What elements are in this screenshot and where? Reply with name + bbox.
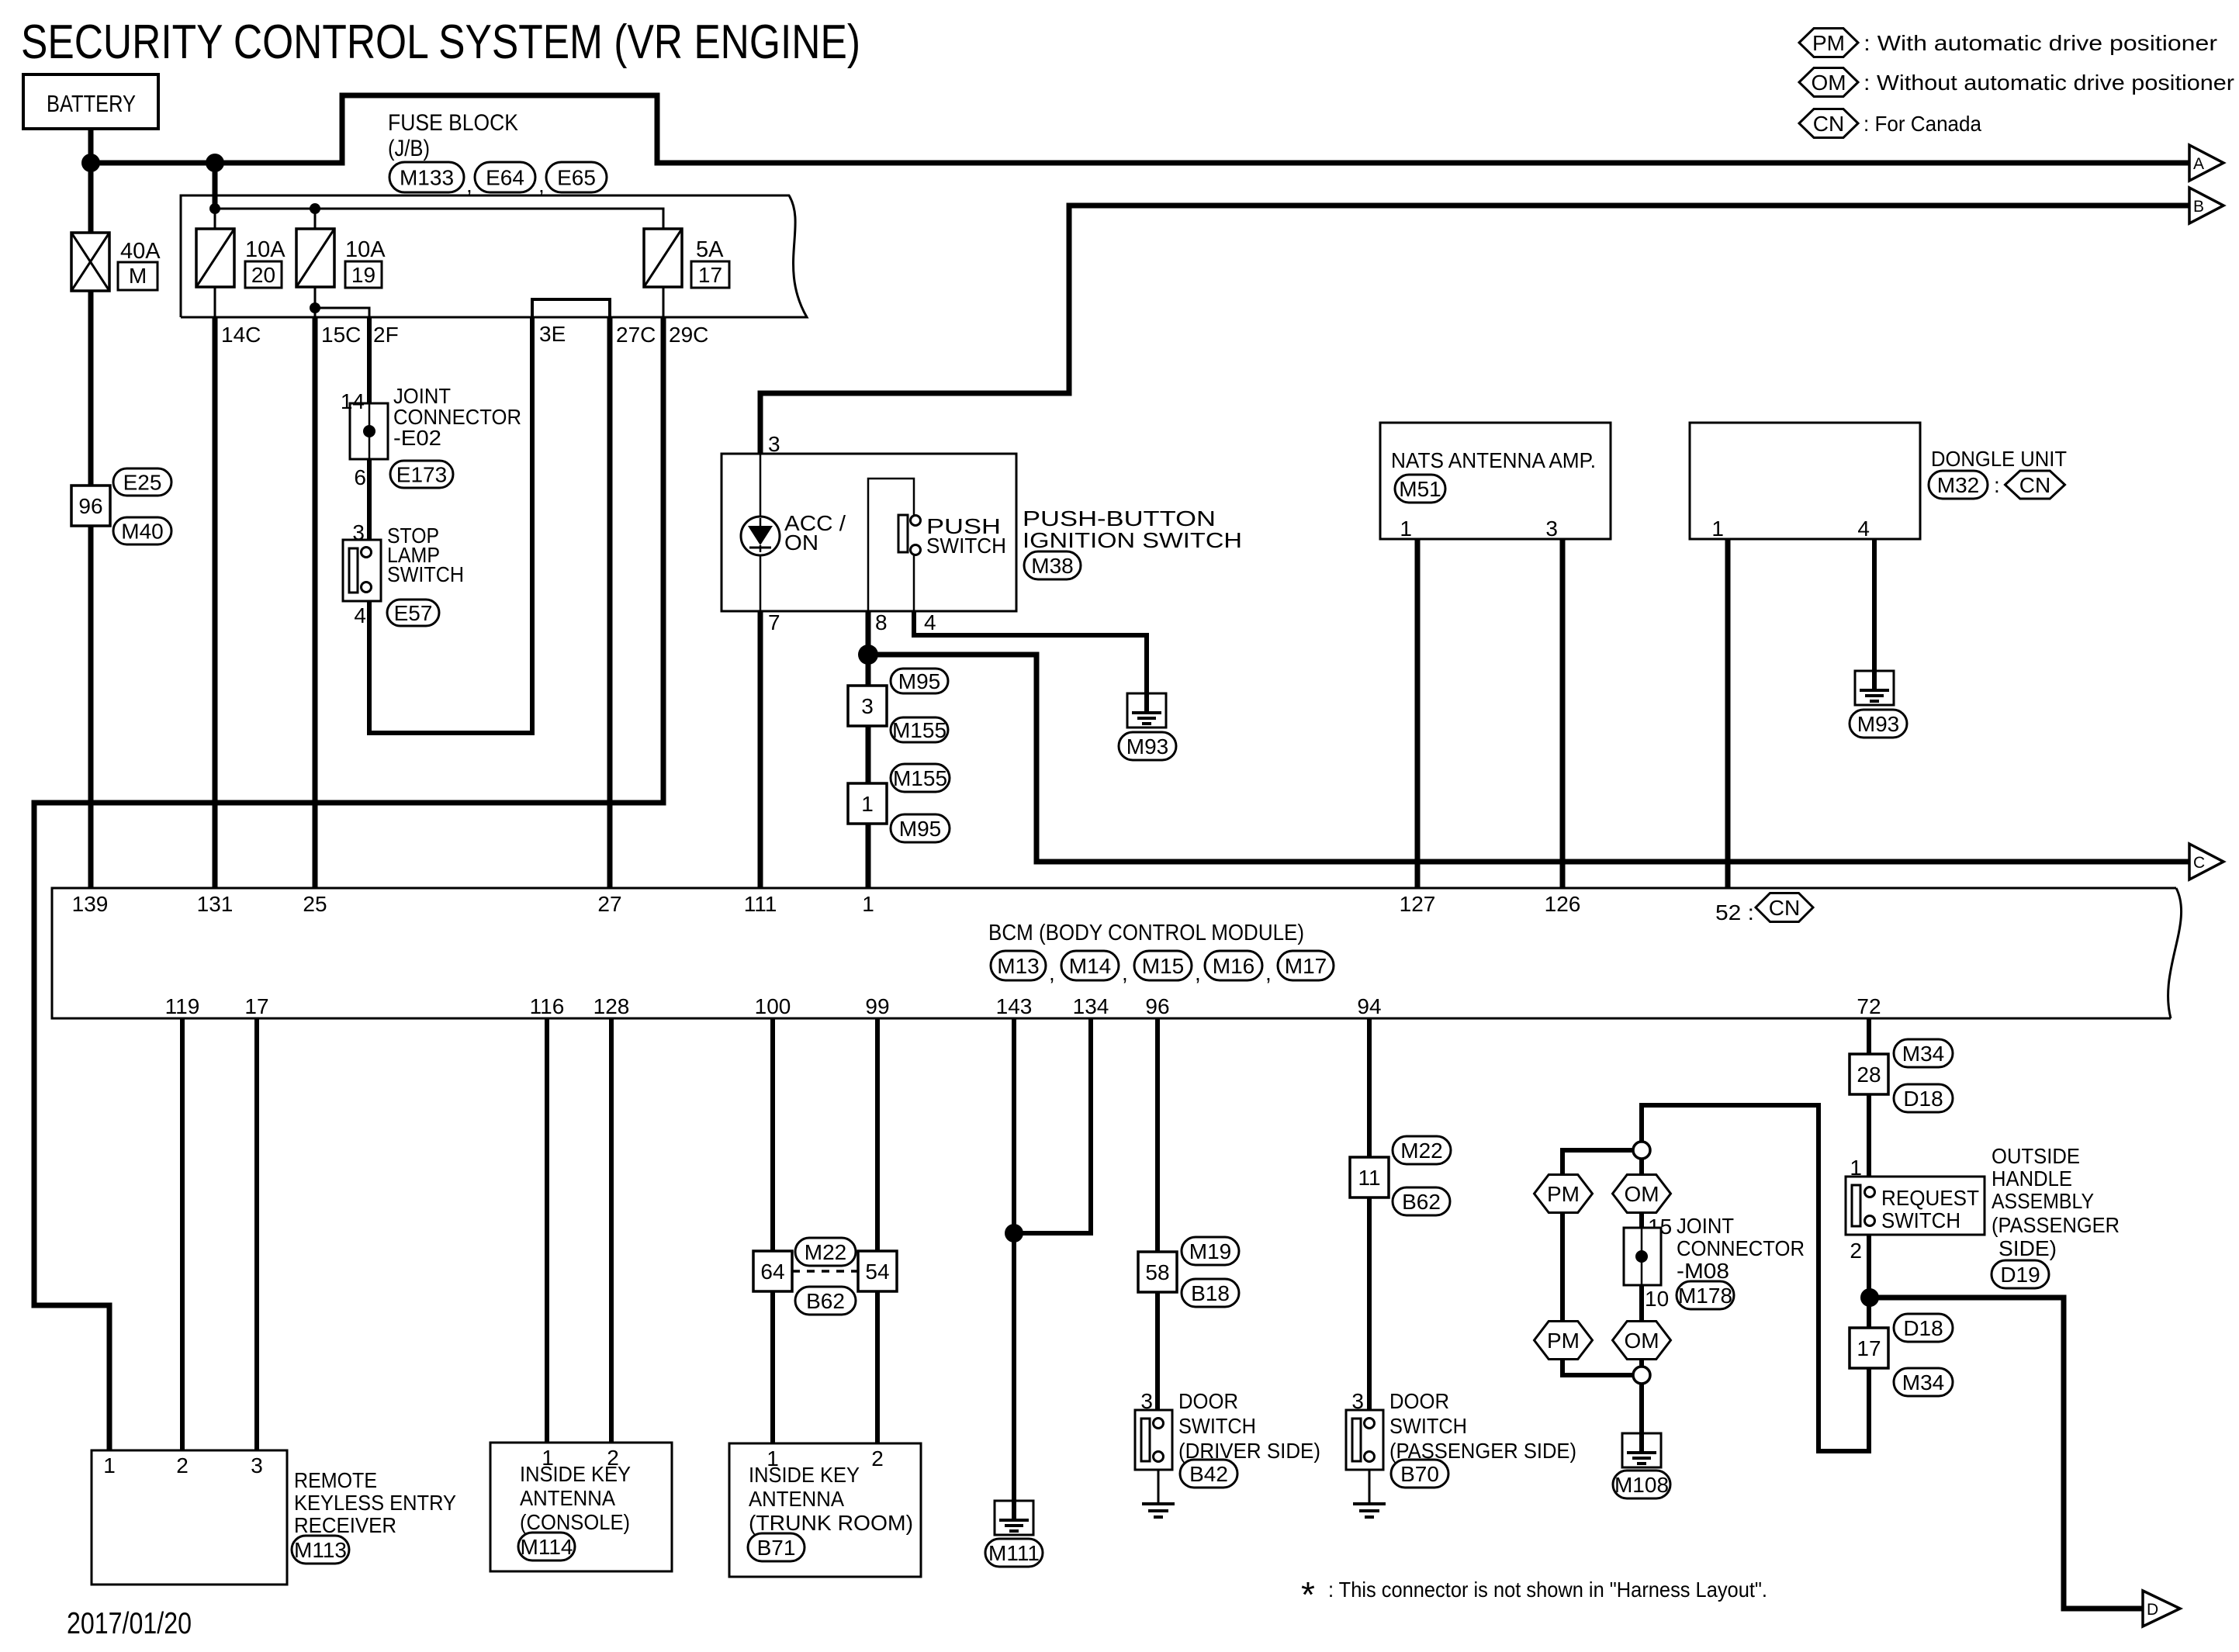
svg-text:M14: M14	[1069, 954, 1111, 978]
wire NATS antenna amp pin 1 to BCM pin 127	[1415, 539, 1421, 888]
wire bus A from battery junction over fuse block to arrow A	[91, 95, 2189, 163]
svg-text:2: 2	[871, 1446, 884, 1471]
wire push-button ignition switch pin 8 to BCM pin 1	[866, 611, 871, 888]
connector M34 upper	[1894, 1039, 1953, 1067]
wire 2F branch from fuse 19 junction	[315, 308, 369, 317]
connector M155 lower	[891, 764, 950, 792]
wire lower OM connector to option junction B	[1639, 1359, 1644, 1367]
svg-text:64: 64	[760, 1260, 784, 1284]
svg-text:(J/B): (J/B)	[388, 136, 430, 161]
svg-text:3: 3	[768, 432, 780, 456]
svg-text:M13: M13	[997, 954, 1039, 978]
svg-text:40A: 40A	[120, 239, 161, 264]
svg-text:REQUEST: REQUEST	[1881, 1186, 1979, 1210]
svg-text:SWITCH: SWITCH	[926, 534, 1006, 558]
wire 27C to BCM pin 27	[607, 317, 613, 888]
in-line connector pin 1	[848, 783, 887, 824]
svg-text:(CONSOLE): (CONSOLE)	[520, 1510, 630, 1534]
svg-text:4: 4	[924, 610, 936, 634]
battery	[23, 74, 158, 129]
NATS antenna amp box	[1380, 423, 1611, 539]
svg-text:1: 1	[103, 1453, 116, 1477]
legend symbol PM	[1799, 29, 1858, 57]
svg-text:25: 25	[303, 892, 327, 916]
svg-text:PM: PM	[1812, 31, 1845, 55]
svg-text:PM: PM	[1547, 1182, 1580, 1206]
connector B62 passenger	[1393, 1187, 1450, 1215]
terminal stub 3E	[532, 299, 610, 317]
svg-text:M114: M114	[521, 1535, 573, 1559]
svg-text:: This connector is not shown: : This connector is not shown in "Harnes…	[1328, 1578, 1767, 1602]
off-page arrow C	[2189, 844, 2223, 880]
in-line connector pin 28	[1850, 1054, 1888, 1094]
svg-text:29C: 29C	[669, 323, 708, 347]
svg-text:(TRUNK ROOM): (TRUNK ROOM)	[749, 1511, 913, 1535]
connector M155 upper	[891, 717, 948, 742]
junction fuse block bus at 14C	[209, 203, 220, 214]
svg-text:M95: M95	[898, 669, 940, 693]
svg-text:SIDE): SIDE)	[1998, 1236, 2057, 1260]
in-line connector pin 64	[753, 1251, 792, 1291]
svg-text:131: 131	[197, 892, 234, 916]
svg-text:M178: M178	[1678, 1284, 1732, 1308]
svg-text:1: 1	[1400, 517, 1412, 541]
svg-text:B42: B42	[1189, 1462, 1228, 1486]
svg-text:M155: M155	[893, 766, 947, 790]
svg-text:28: 28	[1857, 1063, 1881, 1087]
ground driver door switch	[1142, 1502, 1175, 1505]
svg-text:C: C	[2193, 854, 2205, 872]
wire fuse 19 lower branch with junction	[314, 287, 317, 317]
remote keyless entry receiver box	[92, 1450, 287, 1585]
ground M111	[995, 1501, 1033, 1535]
svg-text:OM: OM	[1624, 1329, 1659, 1353]
svg-text:B: B	[2193, 198, 2204, 216]
svg-text:,: ,	[1122, 961, 1128, 985]
svg-text:E173: E173	[396, 463, 447, 487]
svg-text:7: 7	[768, 610, 780, 634]
svg-text:: For Canada: : For Canada	[1864, 112, 1981, 136]
wire BCM pin 100 to inside key antenna trunk pin 1	[770, 1018, 775, 1443]
wire NATS antenna amp pin 3 to BCM pin 126	[1560, 539, 1566, 888]
dongle unit box	[1690, 423, 1920, 539]
wire fuse block internal bus	[215, 209, 663, 229]
svg-text:SWITCH: SWITCH	[1881, 1208, 1960, 1232]
connector M133	[389, 162, 464, 192]
wire door switch driver side to ground	[1158, 1470, 1160, 1504]
junction request switch pin 2	[1860, 1288, 1879, 1307]
svg-text:M32: M32	[1937, 473, 1979, 497]
connector E173	[390, 461, 453, 488]
svg-text:M113: M113	[294, 1538, 347, 1562]
svg-text:15C: 15C	[321, 323, 361, 347]
connector M40	[113, 517, 171, 544]
svg-text:96: 96	[78, 494, 102, 518]
svg-text:96: 96	[1145, 994, 1169, 1018]
svg-text:10A: 10A	[245, 237, 285, 262]
svg-text:5A: 5A	[696, 237, 724, 262]
svg-text:128: 128	[593, 994, 630, 1018]
svg-text:3: 3	[251, 1453, 263, 1477]
svg-text:M108: M108	[1614, 1473, 1669, 1497]
wire request switch junction to arrow D	[1869, 1298, 2143, 1609]
svg-text:DONGLE UNIT: DONGLE UNIT	[1931, 447, 2067, 471]
fuse 17 5A	[644, 229, 682, 287]
connector M17	[1278, 951, 1334, 980]
connector B62	[795, 1287, 856, 1315]
svg-text:72: 72	[1857, 994, 1881, 1018]
svg-text:2: 2	[176, 1453, 189, 1477]
svg-text:D: D	[2147, 1601, 2158, 1619]
svg-text:E64: E64	[486, 166, 524, 190]
connector M95 lower	[891, 814, 950, 842]
svg-text:M40: M40	[121, 520, 163, 544]
svg-text:,: ,	[1195, 961, 1201, 985]
svg-text:D19: D19	[2000, 1263, 2040, 1287]
svg-text:M15: M15	[1142, 954, 1184, 978]
connector M34 lower	[1894, 1368, 1953, 1396]
svg-text:INSIDE KEY: INSIDE KEY	[520, 1462, 631, 1486]
svg-text:139: 139	[72, 892, 109, 916]
svg-text:E65: E65	[557, 166, 596, 190]
connector M19	[1182, 1237, 1239, 1265]
svg-text:M93: M93	[1857, 712, 1899, 736]
symbol PM lower	[1535, 1322, 1593, 1360]
svg-text:M133: M133	[400, 166, 454, 190]
svg-text:(PASSENGER: (PASSENGER	[1992, 1213, 2120, 1237]
wire joint connector E02 to stop lamp switch pin 3	[367, 459, 372, 547]
wire BCM pin 143 to ground M111	[1012, 1018, 1016, 1501]
svg-text:,: ,	[1049, 961, 1055, 985]
svg-text::: :	[1994, 473, 2000, 497]
svg-text:M38: M38	[1031, 554, 1073, 578]
ground M108	[1622, 1433, 1661, 1467]
svg-text:4: 4	[354, 603, 366, 627]
indicator ACC/ON internal wire	[760, 454, 762, 611]
wire BCM pin 119 to remote keyless entry receiver pin 2	[180, 1018, 185, 1450]
junction fuse block bus at 15C	[310, 203, 320, 214]
svg-text:2F: 2F	[373, 323, 399, 347]
connector E65	[546, 162, 607, 192]
connector M108	[1613, 1471, 1670, 1498]
wire B line from arrow B to push-button ignition switch pin 3	[760, 206, 2189, 454]
svg-text:4: 4	[1857, 517, 1870, 541]
svg-text:27: 27	[597, 892, 621, 916]
wire option junction B to ground M108	[1639, 1384, 1644, 1433]
option junction A	[1633, 1142, 1650, 1159]
connector M22	[795, 1238, 856, 1266]
wire BCM pin 17 to remote keyless entry receiver pin 3	[254, 1018, 259, 1450]
in-line connector pin 11	[1350, 1157, 1389, 1198]
svg-text:E57: E57	[394, 601, 433, 625]
svg-text:-E02: -E02	[393, 426, 441, 450]
wire pin 8 junction to arrow C	[868, 655, 2189, 862]
svg-text:B62: B62	[1402, 1190, 1441, 1214]
connector B71	[748, 1533, 805, 1561]
svg-text:CONNECTOR: CONNECTOR	[1677, 1236, 1805, 1260]
symbol CN dongle	[2005, 471, 2065, 499]
svg-text:17: 17	[244, 994, 268, 1018]
wire BCM pin 99 to inside key antenna trunk pin 2	[875, 1018, 880, 1443]
in-line connector pin 54	[858, 1251, 897, 1291]
connector M114	[518, 1533, 575, 1560]
svg-text:B62: B62	[806, 1289, 845, 1313]
connector M93	[1119, 732, 1176, 760]
ground M93 dongle	[1855, 671, 1894, 705]
svg-text:99: 99	[865, 994, 889, 1018]
door switch passenger side	[1346, 1410, 1383, 1470]
wire 15C to BCM pin 25	[313, 317, 318, 888]
svg-text:8: 8	[875, 610, 888, 634]
connector D18 upper	[1894, 1084, 1953, 1112]
svg-text:M51: M51	[1399, 477, 1441, 501]
connector M32	[1929, 471, 1988, 499]
svg-text:SWITCH: SWITCH	[1389, 1414, 1467, 1438]
svg-text:OUTSIDE: OUTSIDE	[1992, 1144, 2080, 1168]
svg-text:14: 14	[341, 389, 365, 413]
in-line connector pin 3	[848, 686, 887, 726]
connector M51	[1395, 475, 1445, 503]
svg-text:M34: M34	[1902, 1370, 1944, 1395]
connector B70	[1391, 1460, 1448, 1488]
connector B18	[1182, 1279, 1239, 1307]
in-line connector pin 58	[1138, 1252, 1177, 1292]
connector M13	[991, 951, 1046, 980]
wire lower PM to option junction B	[1562, 1359, 1633, 1375]
svg-text:27C: 27C	[616, 323, 656, 347]
push switch internal wiring	[868, 479, 914, 611]
svg-text:119: 119	[165, 994, 200, 1018]
svg-text:143: 143	[996, 994, 1033, 1018]
svg-text:58: 58	[1145, 1260, 1169, 1284]
door switch driver side	[1135, 1410, 1172, 1470]
connector M113	[292, 1536, 349, 1564]
off-page arrow B	[2189, 188, 2223, 223]
svg-text:CN: CN	[1813, 112, 1844, 136]
svg-text:HANDLE: HANDLE	[1992, 1166, 2072, 1191]
svg-text:M95: M95	[899, 817, 941, 841]
svg-text:3: 3	[861, 694, 874, 718]
svg-text:D18: D18	[1903, 1087, 1943, 1111]
svg-text:B18: B18	[1191, 1281, 1230, 1305]
legend symbol CN	[1799, 109, 1858, 138]
connector 96 in-line	[71, 486, 110, 526]
svg-text:B71: B71	[757, 1536, 796, 1560]
wire between PM connectors	[1560, 1212, 1565, 1322]
svg-text:DOOR: DOOR	[1178, 1389, 1238, 1413]
connector E64	[475, 162, 535, 192]
svg-text:,: ,	[1265, 961, 1272, 985]
svg-text:111: 111	[744, 892, 777, 916]
svg-text:RECEIVER: RECEIVER	[294, 1513, 396, 1537]
connector M95 upper	[891, 669, 948, 693]
svg-text:: With automatic drive positio: : With automatic drive positioner	[1864, 31, 2217, 55]
svg-text:E25: E25	[123, 471, 162, 495]
svg-text:M: M	[129, 264, 147, 288]
ground passenger door switch	[1353, 1502, 1386, 1505]
svg-text:D18: D18	[1903, 1316, 1943, 1340]
wire option branch left PM path	[1562, 1150, 1633, 1175]
svg-text:M111: M111	[988, 1541, 1040, 1565]
svg-text:M93: M93	[1126, 734, 1168, 759]
fusible link 40A M	[71, 233, 109, 291]
BCM body control module box	[52, 888, 2182, 1018]
svg-text:100: 100	[755, 994, 791, 1018]
svg-text:,: ,	[538, 173, 545, 197]
svg-text:PM: PM	[1547, 1329, 1580, 1353]
svg-text:19: 19	[351, 263, 375, 287]
connector E25	[113, 468, 171, 496]
svg-text:NATS ANTENNA AMP.: NATS ANTENNA AMP.	[1391, 448, 1596, 472]
svg-text:17: 17	[1857, 1336, 1881, 1360]
svg-text:1: 1	[861, 792, 874, 816]
fuse 19 10A	[296, 229, 334, 287]
connector M15	[1134, 951, 1192, 980]
wire dongle unit pin 4 to ground M93	[1872, 539, 1877, 671]
connector M14	[1061, 951, 1119, 980]
svg-text:3E: 3E	[539, 322, 566, 346]
off-page arrow A	[2189, 145, 2223, 181]
svg-text:14C: 14C	[221, 323, 261, 347]
svg-text:KEYLESS ENTRY: KEYLESS ENTRY	[294, 1491, 456, 1515]
wire request switch pin 2 to junction	[1867, 1235, 1871, 1298]
svg-text:OM: OM	[1811, 71, 1846, 95]
wire BCM pin 128 to inside key antenna console pin 2	[609, 1018, 614, 1443]
request switch	[1846, 1177, 1985, 1235]
fuse 20 10A	[196, 229, 234, 287]
svg-text:FUSE BLOCK: FUSE BLOCK	[388, 110, 518, 136]
in-line connector pin 17	[1850, 1328, 1888, 1368]
svg-text:,: ,	[466, 173, 472, 197]
svg-text:2: 2	[1850, 1239, 1862, 1263]
wire dongle unit pin 1 to BCM pin 52	[1725, 539, 1731, 888]
dashed link between 64 and 54	[792, 1270, 858, 1273]
svg-text:126: 126	[1545, 892, 1581, 916]
push switch symbol	[898, 515, 908, 552]
svg-text:1: 1	[1711, 517, 1724, 541]
wire push-button ignition switch pin 7 to BCM pin 111	[758, 611, 763, 888]
svg-text:94: 94	[1357, 994, 1381, 1018]
connector D18 lower	[1894, 1314, 1953, 1342]
svg-text:M22: M22	[805, 1240, 846, 1264]
fuse block outline	[181, 195, 807, 317]
wire fuse 17 to terminal 29C	[663, 287, 665, 317]
connector M22 passenger	[1393, 1136, 1451, 1164]
svg-text:-M08: -M08	[1677, 1259, 1729, 1283]
svg-text:20: 20	[251, 263, 275, 287]
connector E57	[387, 600, 439, 626]
svg-text:SWITCH: SWITCH	[387, 562, 464, 586]
push-button ignition switch box M38	[722, 454, 1016, 611]
inside key antenna trunk room box	[729, 1443, 921, 1577]
svg-text:127: 127	[1400, 892, 1436, 916]
svg-text:SWITCH: SWITCH	[1178, 1414, 1256, 1438]
svg-text:52 :: 52 :	[1715, 900, 1754, 924]
svg-text:DOOR: DOOR	[1389, 1389, 1449, 1413]
wire option junction A to OM connector	[1639, 1159, 1644, 1175]
svg-text:134: 134	[1073, 994, 1109, 1018]
wire BCM pin 96 to door switch driver side pin 3	[1155, 1018, 1160, 1410]
wire BCM pin 116 to inside key antenna console pin 1	[545, 1018, 549, 1443]
wire joint connector M08 pin 10 to lower OM connector	[1639, 1285, 1644, 1322]
wire stop lamp switch pin 4 loop back to terminal 3E	[369, 317, 532, 733]
wire BCM pin 72 to request switch pin 1	[1867, 1018, 1871, 1177]
symbol OM upper	[1613, 1175, 1671, 1213]
connector M111	[985, 1539, 1043, 1567]
off-page arrow D	[2143, 1591, 2180, 1626]
legend symbol OM	[1799, 68, 1858, 97]
svg-text:ASSEMBLY: ASSEMBLY	[1992, 1189, 2094, 1213]
junction fuse 19 lower 2F branch	[310, 302, 320, 313]
wire fuse block feed from bus junction	[213, 163, 218, 209]
svg-text:M22: M22	[1400, 1139, 1442, 1163]
svg-text:OM: OM	[1624, 1182, 1659, 1206]
svg-text:JOINT: JOINT	[1677, 1214, 1734, 1238]
option junction B	[1633, 1367, 1650, 1384]
svg-text:M16: M16	[1213, 954, 1254, 978]
inside key antenna console box	[490, 1443, 672, 1571]
connector M16	[1205, 951, 1262, 980]
wire 14C to BCM pin 131	[213, 317, 218, 888]
svg-text:6: 6	[354, 465, 366, 489]
svg-text:*: *	[1301, 1574, 1315, 1615]
symbol PM upper	[1535, 1175, 1593, 1213]
svg-text:BATTERY: BATTERY	[47, 90, 136, 117]
junction battery bus	[81, 154, 100, 172]
wire fuse 20 feed	[214, 209, 216, 229]
svg-text:11: 11	[1358, 1166, 1380, 1190]
wire BCM pin 94 to door switch passenger side pin 3	[1367, 1018, 1372, 1410]
svg-text:ANTENNA: ANTENNA	[520, 1486, 615, 1510]
connector D19	[1992, 1260, 2049, 1288]
connector M38	[1024, 551, 1081, 579]
connector M178	[1677, 1281, 1734, 1309]
wire request switch junction through connector 17 and loop to option branch	[1642, 1105, 1869, 1451]
wire 2F to joint connector E02	[367, 317, 372, 403]
svg-text:: Without automatic drive posi: : Without automatic drive positioner	[1864, 71, 2234, 95]
wire fuse 20 branch	[314, 209, 317, 229]
svg-text:IGNITION SWITCH: IGNITION SWITCH	[1023, 528, 1242, 552]
svg-text:SECURITY CONTROL SYSTEM (VR EN: SECURITY CONTROL SYSTEM (VR ENGINE)	[21, 16, 860, 69]
svg-text:CN: CN	[2019, 473, 2050, 497]
junction fuse block feed	[206, 154, 224, 172]
svg-text:CN: CN	[1769, 896, 1800, 920]
svg-text:A: A	[2193, 155, 2204, 173]
svg-text:M155: M155	[892, 718, 946, 742]
svg-text:B70: B70	[1400, 1462, 1439, 1486]
svg-text:M17: M17	[1285, 954, 1327, 978]
stop lamp switch	[343, 540, 381, 601]
wire door switch passenger side to ground	[1369, 1470, 1371, 1504]
svg-text:3: 3	[1545, 517, 1558, 541]
svg-text:54: 54	[865, 1260, 889, 1284]
svg-text:ON: ON	[784, 531, 818, 555]
wire 29C trunk to remote keyless entry receiver pin 1	[34, 317, 663, 1450]
svg-text:REMOTE: REMOTE	[294, 1468, 377, 1492]
svg-text:10: 10	[1645, 1287, 1669, 1311]
svg-text:PUSH-BUTTON: PUSH-BUTTON	[1023, 506, 1216, 531]
svg-text:1: 1	[862, 892, 874, 916]
svg-text:ANTENNA: ANTENNA	[749, 1487, 844, 1511]
ground M93 ignition switch	[1127, 693, 1166, 728]
svg-text:BCM (BODY CONTROL MODULE): BCM (BODY CONTROL MODULE)	[988, 921, 1304, 945]
connector M93 dongle	[1850, 710, 1907, 738]
wire OM connector to joint connector M08 pin 15	[1639, 1212, 1644, 1228]
wire fuse 20 to terminal 14C	[214, 287, 216, 317]
wire push-button ignition switch pin 4 to ground M93	[914, 611, 1147, 693]
indicator LED ACC/ON	[741, 517, 780, 555]
junction BCM pin 143 and 134	[1005, 1224, 1023, 1242]
